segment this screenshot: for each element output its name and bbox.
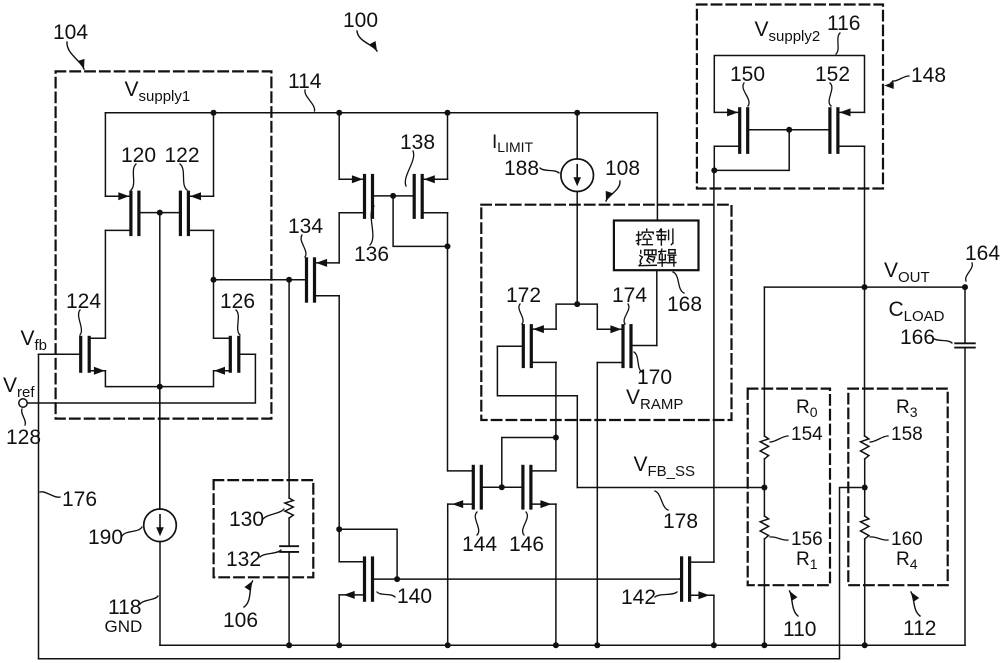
dashed box 104 (differential amplifier) [56,71,272,418]
wire 138 right vertical upper [447,113,449,180]
wire amp output down to resistor 130 [288,280,290,498]
squiggle for 154 [770,436,788,442]
wire 140 drain to 142 gate [397,578,680,580]
svg-text:132: 132 [226,548,261,571]
svg-text:100: 100 [343,9,378,32]
node dot at 134 gate line RC branch [286,277,292,283]
squiggle for 114 [305,90,315,111]
squiggle for 156 [770,537,788,540]
wire 144/146 gates up and over [502,438,556,488]
squiggle for 148 [893,76,909,81]
wire Vsupply2 inner rail [714,56,864,113]
wire tail to current source 190 [159,387,161,509]
wire VOUT down to R0 [763,287,765,436]
svg-text:174: 174 [612,284,647,307]
transistor 172 [497,325,556,366]
svg-text:124: 124 [66,290,101,313]
wire 124 source to tail [105,371,213,386]
squiggle for 144 [475,512,478,535]
squiggle for 120 [131,164,136,190]
squiggle for 166 [933,338,952,343]
node dot 172/174 drain node [574,301,580,307]
pointer arrow for 104 [67,42,84,69]
pointer arrow for 106 [244,581,253,607]
pointer arrow for 112 [911,592,920,616]
svg-text:190: 190 [88,526,123,549]
squiggle for 134 [301,235,306,257]
wire 188 to 172/174 node [576,192,578,305]
svg-text:118: 118 [108,596,141,619]
wire mirror gate tie down [714,130,789,171]
wire 136/138 plate node down to 138 drain [393,196,447,247]
node dot at 134 gate line left [211,277,217,283]
svg-text:140: 140 [397,585,432,608]
node dot at 136 branch on rail [336,110,342,116]
wire 122 drain down-leg [213,230,215,337]
node dot rail at 146 [553,642,559,648]
node dot rail at 142 [711,642,717,648]
wire feedback left vertical 176 [38,354,40,659]
squiggle for 150 [743,83,749,106]
wire R4 to rail [864,539,866,645]
transistor 152 [789,108,864,152]
squiggle for 152 [829,83,832,106]
node dot VOUT at CLOAD [962,284,968,290]
transistor 138 [393,175,447,217]
transistor 142 [680,558,714,600]
transistor 150 [714,108,789,152]
wire 172/174 drain bridge [556,304,597,329]
node dot at 122 source on rail [211,110,217,116]
wire 120 source to rail [104,113,106,196]
squiggle for 122 [180,164,187,190]
svg-text:146: 146 [509,533,544,556]
transistor 146 [502,466,556,508]
squiggle for 128 [22,409,26,425]
wire 150 source leg [713,146,715,170]
node dot rail at 144 [445,642,451,648]
svg-text:106: 106 [223,609,258,632]
wire VOUT down to R3 [864,287,866,436]
svg-text:134: 134 [288,215,323,238]
squiggle for 190 [122,527,142,536]
squiggle for 116 [836,33,840,54]
wire 140 gate drop [338,529,340,561]
svg-text:176: 176 [62,488,97,511]
wire 140 source to rail [338,595,340,645]
control logic text 辑 [658,249,676,266]
squiggle for 188 [540,168,559,173]
svg-text:122: 122 [165,144,200,167]
node dot rail at RC branch [286,642,292,648]
node dot at 138 branch on rail [445,110,451,116]
node dot 144/146 gate node [499,484,505,490]
control logic text 控 [636,229,653,245]
node dot rail at 140 [336,642,342,648]
wire Vfb lead [39,353,78,355]
transistor 134 [289,259,339,301]
node dot rail at 174 [594,642,600,648]
wire 172 gate-plate run to FB_SS [497,346,577,487]
squiggle for 160 [870,537,888,540]
svg-text:154: 154 [791,424,823,445]
wire 134 gate line to amp output [214,279,308,281]
resistor 154 R0 [760,436,768,459]
pointer arrow for 108 [606,181,620,201]
squiggle for 132 [260,550,281,557]
wire 152 source down to Vout [864,146,866,287]
node dot VOUT at 152 leg [862,284,868,290]
wire 174 gate-plate up to control logic [656,270,658,345]
svg-text:130: 130 [229,508,264,531]
node dot soft-start tap [862,485,868,491]
wire R0 to R1 [763,459,765,516]
resistor 130 [285,498,293,518]
dashed box 110 (feedback divider) [748,389,830,586]
wire 120 drain down-leg [104,230,106,338]
resistor 158 R3 [861,436,869,459]
transistor 122 [160,192,214,234]
dashed box 112 (soft-start divider) [848,389,947,586]
control logic text 制 [657,229,673,245]
svg-text:110: 110 [783,618,816,641]
svg-text:142: 142 [621,586,656,609]
capacitor 132 [280,545,298,547]
svg-text:104: 104 [53,21,88,44]
dashed box 148 (pass devices) [697,5,883,189]
svg-text:GND: GND [105,617,143,636]
wire 146 source to rail [555,504,557,645]
capacitor 166 CLOAD [955,342,975,344]
transistor 174 [597,325,657,366]
pointer arrow for 110 [790,591,799,616]
terminal 128 open circle [19,399,27,407]
transistor 136 [339,175,393,217]
svg-text:158: 158 [891,424,923,445]
svg-text:164: 164 [965,242,1000,265]
svg-text:136: 136 [354,243,389,266]
squiggle for 176 [40,492,60,497]
control logic box 168 [614,221,699,271]
transistor 140 [339,558,397,600]
squiggle for 164 [966,263,973,281]
node dot at 138 drain tie [445,243,451,249]
transistor 120 [105,192,159,234]
wire 146 drain up to 172 source [555,362,557,471]
wire V_FB_SS run [577,487,764,489]
dashed box 108 (soft-start control) [481,205,731,420]
wire 122 source to rail [213,113,215,196]
squiggle for 138 [405,151,413,186]
node dot gate tie at 146 drain leg [553,435,559,441]
wire rail to 188 [576,113,578,159]
squiggle for 178 [655,491,668,510]
squiggle for 136 [370,206,374,245]
wire 130 to 132 [288,518,290,546]
wire 144 source to rail [447,504,449,645]
svg-text:128: 128 [6,426,41,449]
wire R3 to R4 [864,459,866,516]
svg-text:108: 108 [605,157,640,180]
node dot 136/138 plate node [390,193,396,199]
svg-text:156: 156 [791,529,823,550]
squiggle for 142 [655,592,677,597]
wire ground rail 118 [160,644,965,646]
wire 140 gate-drain loop [339,529,397,579]
wire mirror-gate vertical [159,213,161,510]
squiggle for 126 [236,310,240,335]
squiggle for 146 [523,512,528,535]
squiggle for 124 [79,310,82,335]
svg-text:160: 160 [891,529,923,550]
node dot 150/152 gate node [786,127,792,133]
node dot rail at R4 [862,642,868,648]
wire R1 to rail [763,539,765,645]
wire 136-source to 134 lead vertical [338,213,340,263]
squiggle for 130 [263,509,284,519]
wire 136-gate vertical upper [338,113,340,180]
transistor 144 [448,466,502,508]
svg-text:148: 148 [911,64,946,87]
squiggle for 140 [377,592,395,597]
wire 174 source to rail [596,363,598,646]
wire CLOAD to ground rail [964,348,966,646]
svg-text:178: 178 [663,510,698,533]
svg-text:152: 152 [815,63,850,86]
node dot at 188 branch on rail [574,110,580,116]
wire bottom feedback run [39,488,862,659]
wire VOUT rail [764,286,965,288]
node dot diff tail [157,384,163,390]
svg-text:112: 112 [903,617,936,640]
current source 188 [561,159,594,192]
wire Vref to 126 gate [27,354,255,403]
wire 138 source to drain tie [447,213,449,247]
current source 190 [144,509,177,542]
svg-text:144: 144 [462,533,497,556]
svg-text:126: 126 [220,290,255,313]
wire 138 node down to 144 drain [447,246,449,471]
svg-text:138: 138 [400,131,435,154]
node dot 140 gate tie [336,526,342,532]
transistor 126 [214,337,256,374]
wire 134 source down-leg [338,296,340,530]
squiggle for 170 [634,352,642,372]
svg-text:120: 120 [121,144,156,167]
squiggle for 174 [624,304,629,324]
svg-text:188: 188 [504,157,539,180]
squiggle for 118 [140,596,158,604]
resistor 160 R4 [861,516,869,539]
control logic text 逻 [639,250,656,266]
svg-text:170: 170 [637,366,672,389]
node dot 120/122 gate node [157,210,163,216]
svg-text:172: 172 [506,284,541,307]
svg-text:116: 116 [827,12,860,35]
pointer arrow for 100 [357,31,377,51]
wire 142 drain up-leg [713,170,715,562]
node dot rail at R1 [761,642,767,648]
svg-text:150: 150 [730,63,765,86]
dashed box 106 (compensation network) [214,480,314,577]
node dot 140 drain [394,576,400,582]
svg-text:166: 166 [900,326,935,349]
node dot FB tap [761,485,767,491]
wire 190 to ground rail [159,542,161,646]
wire 114 top supply rail [105,113,657,221]
wire 132 to ground rail [288,552,290,645]
squiggle for 158 [870,436,888,442]
svg-text:168: 168 [667,293,702,316]
wire VOUT to CLOAD [964,287,966,343]
resistor 156 R1 [760,516,768,539]
squiggle for 172 [519,304,523,324]
wire 142 source to rail [713,595,715,645]
transistor 124 [52,337,105,374]
squiggle for 168 [673,272,684,293]
node dot at 150 drain tie [711,167,717,173]
pointer arrow for 148 [884,82,894,89]
